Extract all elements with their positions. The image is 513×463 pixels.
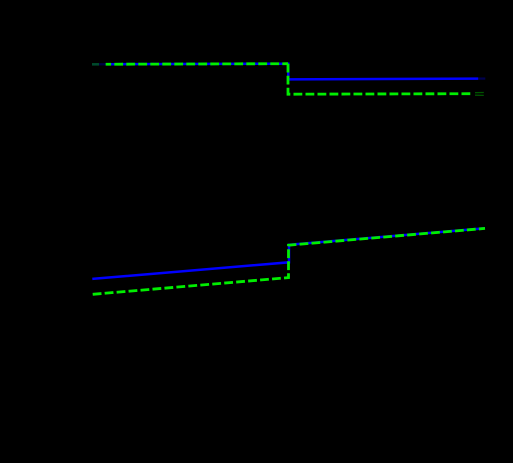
wire: top green dashed curve, pre-step horizontal — [106, 62, 288, 65]
wire: bottom blue solid curve (step up at x=289) — [92, 228, 485, 279]
wire: top green faint forked tail right (upper strand) — [475, 92, 485, 94]
wire: top green dashed curve, step drop and post-step horizontal — [288, 64, 472, 94]
wire: top blue solid curve (step down at x=288) — [106, 64, 479, 80]
wire: bottom green dashed curve (step up at x=288.5) — [93, 228, 485, 294]
wire: top blue faint tail right — [478, 77, 485, 79]
wire: top green faint forked tail right (lower strand) — [475, 94, 485, 96]
wire: top green faint lead-in left — [92, 63, 99, 66]
wire: top faint lead-in left (blue under green) — [92, 63, 106, 65]
